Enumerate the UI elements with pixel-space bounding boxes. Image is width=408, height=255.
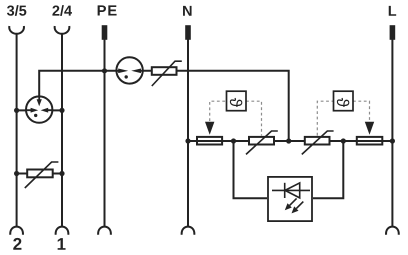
- terminal fork 2/4: [55, 26, 70, 34]
- varistor top (PE path): [152, 61, 182, 86]
- label PE: [98, 5, 117, 15]
- bottom socket 2: [10, 227, 23, 235]
- node row mid (V1-V2): [286, 138, 291, 143]
- spark gap F1 (3-electrode gas discharge tube): [26, 96, 53, 123]
- node PE x equipotential run: [102, 68, 107, 73]
- disconnect trip arrow 1: [205, 122, 214, 135]
- label 2: [13, 238, 21, 250]
- wire main row N to L: [188, 140, 392, 142]
- wire L line: [391, 40, 393, 227]
- node GDT1 left: [14, 108, 19, 113]
- node N x row: [185, 138, 190, 143]
- wire N line: [187, 40, 189, 227]
- LED indicator U1: [268, 177, 312, 221]
- PE terminal pin: [102, 25, 108, 40]
- disconnect trip arrow 2: [365, 122, 374, 135]
- varistor V2: [302, 131, 334, 154]
- thermal disconnect fuse 1: [197, 137, 222, 145]
- L terminal pin: [390, 25, 396, 40]
- node L x row: [390, 138, 395, 143]
- bottom socket PE: [98, 227, 111, 235]
- wire PE line: [104, 40, 106, 227]
- wire varistor lower-left row: [17, 173, 62, 175]
- N terminal pin: [185, 25, 191, 40]
- thermal sensor theta 1: [227, 91, 247, 111]
- bottom socket L: [386, 227, 399, 235]
- label 2/4: [52, 5, 72, 16]
- bottom socket N: [182, 227, 195, 235]
- dashed thermal link group 2: [317, 101, 369, 135]
- wire LED right: [313, 141, 343, 198]
- label 1: [58, 238, 66, 250]
- node row A (fuse1-V1): [231, 138, 236, 143]
- thermal disconnect fuse 2: [357, 137, 383, 145]
- bottom socket 1: [56, 227, 69, 235]
- wire PE equipotential run (GDT1 top to varistor midpoint): [39, 71, 289, 141]
- terminal fork 3/5: [9, 26, 24, 34]
- node varistor lower-left left: [14, 171, 19, 176]
- thermal sensor theta 2: [334, 91, 354, 111]
- node row B (V2-fuse2): [341, 138, 346, 143]
- label 3/5: [7, 5, 26, 16]
- node GDT1 right: [59, 108, 64, 113]
- varistor V1: [246, 131, 278, 154]
- dashed thermal link group 1: [210, 101, 262, 135]
- node varistor lower-left right: [59, 171, 64, 176]
- wire line 3/5 to 2: [16, 34, 18, 227]
- wire line 2/4 to 1: [61, 34, 63, 227]
- wire GDT1 row: [17, 109, 62, 111]
- label N: [183, 6, 192, 16]
- wire LED left: [234, 141, 268, 198]
- spark gap F2 (2-electrode gas discharge tube): [116, 57, 143, 83]
- label L: [389, 6, 396, 16]
- varistor lower-left (between 2 and 1): [25, 162, 59, 188]
